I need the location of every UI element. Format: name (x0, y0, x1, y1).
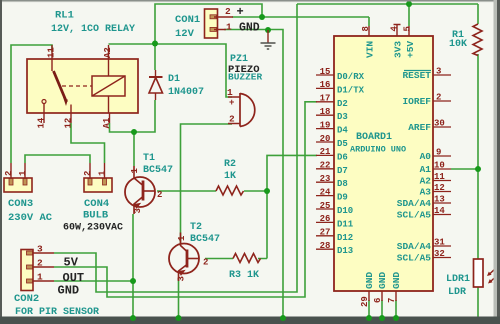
svg-text:A2: A2 (420, 176, 432, 187)
svg-text:16: 16 (320, 80, 331, 90)
svg-text:2: 2 (37, 258, 43, 269)
svg-text:5V: 5V (64, 256, 79, 270)
svg-text:D0/RX: D0/RX (337, 72, 365, 82)
svg-text:+5V: +5V (405, 41, 416, 58)
arduino top pin +5V 5 (403, 26, 417, 58)
wire bottom GND rail (133, 317, 478, 319)
svg-text:R3 1K: R3 1K (229, 270, 259, 281)
wire CON3.2 to relay pin 11 (11, 45, 52, 163)
svg-text:CON3: CON3 (8, 198, 33, 210)
svg-text:1: 1 (177, 235, 187, 241)
svg-text:28: 28 (320, 241, 331, 251)
arduino BOARD1 box (334, 36, 433, 291)
arduino top pin 3V3 4 (390, 25, 404, 59)
svg-text:10K: 10K (449, 39, 467, 50)
svg-text:25: 25 (320, 201, 331, 211)
connector CON4 (84, 163, 112, 192)
svg-text:BC547: BC547 (190, 234, 220, 245)
wire T2 emitter down to GND rail (178, 278, 180, 318)
diode D1 1N4007 (149, 70, 163, 100)
svg-text:19: 19 (320, 120, 331, 130)
svg-text:BULB: BULB (83, 210, 109, 222)
svg-text:CON1: CON1 (175, 14, 200, 26)
svg-text:+: + (237, 5, 244, 19)
arduino right pin numbers (434, 67, 445, 260)
svg-text:BC547: BC547 (143, 165, 173, 176)
svg-text:GND: GND (391, 272, 402, 289)
svg-text:27: 27 (320, 228, 331, 238)
relay pin 11 stub (51, 45, 53, 71)
svg-text:A1: A1 (102, 117, 112, 128)
svg-text:2: 2 (229, 114, 235, 125)
svg-text:LDR1: LDR1 (446, 274, 470, 285)
wire R1 to LDR and A1 tap (451, 54, 478, 318)
junction node +12V at CON1 plus (259, 14, 265, 20)
svg-text:AREF: AREF (408, 122, 431, 133)
wire arduino GND pins to rail (369, 300, 396, 318)
svg-text:1: 1 (98, 170, 108, 176)
svg-text:D7: D7 (337, 166, 348, 176)
svg-text:D4: D4 (337, 126, 348, 136)
svg-text:T2: T2 (190, 222, 202, 233)
svg-text:8: 8 (361, 26, 371, 31)
wire VIN drop (368, 17, 370, 26)
svg-text:+: + (229, 98, 234, 108)
wire T1 base to R2 (157, 190, 216, 192)
svg-text:18: 18 (320, 107, 331, 117)
svg-text:5: 5 (403, 26, 413, 31)
svg-text:21: 21 (320, 147, 331, 157)
wire +12V rail from CON1 plus up and left (155, 4, 369, 44)
svg-text:D9: D9 (337, 193, 348, 203)
svg-text:230V AC: 230V AC (8, 212, 53, 224)
svg-text:23: 23 (320, 174, 331, 184)
svg-text:2: 2 (436, 93, 441, 103)
wire T1 emitter down to GND junction (132, 214, 134, 318)
svg-text:11: 11 (434, 172, 445, 182)
svg-text:2: 2 (203, 258, 208, 268)
svg-text:GND: GND (364, 272, 375, 289)
svg-text:D5: D5 (337, 139, 348, 149)
junction node rail CON1 GND (280, 315, 286, 321)
svg-text:ARDUINO UNO: ARDUINO UNO (350, 145, 406, 155)
wire GND from CON1 to right and down (224, 30, 283, 317)
svg-text:SDA/A4: SDA/A4 (397, 198, 432, 209)
svg-text:3V3: 3V3 (393, 41, 404, 58)
svg-text:13: 13 (434, 195, 445, 205)
svg-text:1: 1 (130, 168, 140, 174)
buzzer PZ1 (228, 93, 255, 127)
svg-text:D1/TX: D1/TX (337, 85, 365, 95)
svg-text:2: 2 (4, 171, 14, 176)
resistor R3 (233, 254, 261, 263)
svg-text:24: 24 (320, 187, 331, 197)
svg-text:GND: GND (239, 22, 260, 35)
junction node CON2 GND / T1 emitter (130, 278, 136, 284)
svg-text:2: 2 (225, 6, 231, 17)
svg-text:1: 1 (18, 170, 28, 176)
svg-text:T1: T1 (143, 153, 155, 164)
svg-text:12V: 12V (175, 28, 195, 40)
svg-text:3: 3 (37, 244, 43, 255)
svg-text:22: 22 (320, 161, 331, 171)
svg-text:3: 3 (436, 67, 441, 77)
junction node rail T2 (176, 315, 182, 321)
svg-text:D11: D11 (337, 219, 354, 229)
wire CON3.1 to CON4.2 (25, 155, 90, 163)
arduino right pin names (397, 70, 432, 264)
svg-text:A3: A3 (420, 187, 432, 198)
svg-text:12: 12 (434, 183, 445, 193)
svg-text:7: 7 (387, 298, 397, 303)
photo frame border (0, 0, 500, 3)
svg-text:A2: A2 (103, 47, 113, 58)
transistor T1 (125, 166, 155, 214)
arduino bottom pins GND 29 6 7 (360, 272, 402, 307)
wire coil A2 / D1 / buzzer plus net (109, 44, 233, 97)
junction node +5V at pin 5 (406, 1, 412, 7)
junction node A1 to LDR divider (475, 166, 481, 172)
LDR1 (474, 259, 499, 287)
relay pin 14 stub (43, 104, 45, 124)
junction node rail GND7 (393, 315, 399, 321)
svg-text:LDR: LDR (448, 287, 466, 298)
svg-text:D2: D2 (337, 99, 348, 109)
svg-text:1: 1 (227, 87, 233, 98)
svg-text:D10: D10 (337, 206, 353, 216)
svg-text:60W,230VAC: 60W,230VAC (63, 223, 123, 234)
svg-text:D13: D13 (337, 246, 353, 256)
svg-text:CON4: CON4 (84, 198, 109, 210)
svg-text:D8: D8 (337, 179, 348, 189)
svg-text:1: 1 (37, 272, 43, 283)
svg-text:26: 26 (320, 214, 331, 224)
svg-text:30: 30 (434, 119, 445, 129)
svg-text:VIN: VIN (365, 41, 376, 58)
relay dashed actuator line (62, 85, 92, 87)
junction node rail T1 (130, 315, 136, 321)
svg-text:GND: GND (377, 272, 388, 289)
wire T2 base to R3 (205, 258, 233, 260)
relay NC contact circle (42, 100, 46, 104)
svg-text:15: 15 (320, 67, 331, 77)
svg-text:D3: D3 (337, 112, 348, 122)
svg-text:4: 4 (390, 26, 400, 32)
svg-text:12: 12 (64, 118, 74, 129)
svg-text:BOARD1: BOARD1 (356, 132, 392, 143)
svg-text:2: 2 (83, 171, 93, 176)
connector CON3 (4, 163, 32, 192)
svg-text:3: 3 (133, 208, 143, 213)
svg-text:RL1: RL1 (55, 10, 74, 22)
svg-text:GND: GND (58, 284, 80, 298)
transistor T2 (169, 233, 199, 282)
arduino left pin numbers 15-28 (320, 67, 331, 251)
junction node rail GND29 (366, 315, 372, 321)
wire relay pin 12 to CON4.1 (71, 123, 105, 163)
wire T2 collector to buzzer pin 2 (181, 124, 233, 244)
wire relay A1 to T1 collector and D1 anode (110, 100, 156, 166)
svg-text:SCL/A5: SCL/A5 (397, 210, 432, 221)
relay switch blade (54, 71, 67, 102)
svg-text:20: 20 (320, 134, 331, 144)
connector CON1 (205, 9, 234, 38)
junction node rail GND6 (379, 315, 385, 321)
svg-text:1K: 1K (224, 171, 236, 182)
junction node coil A2/D1/buzzer (152, 41, 158, 47)
svg-text:3: 3 (177, 276, 187, 281)
wire PIR OUT to Arduino D2 (54, 102, 317, 297)
svg-text:CON2: CON2 (14, 293, 39, 305)
wire CON2 GND to T1 emitter line (54, 280, 133, 282)
relay pin A1 stub (109, 113, 111, 123)
svg-text:32: 32 (434, 249, 445, 259)
svg-text:9: 9 (436, 148, 441, 158)
svg-text:RESET: RESET (402, 70, 431, 81)
svg-text:1: 1 (226, 22, 232, 33)
relay pin A2 stub (108, 45, 110, 59)
svg-text:SCL/A5: SCL/A5 (397, 253, 432, 264)
svg-text:D6: D6 (337, 152, 348, 162)
svg-text:R2: R2 (224, 159, 236, 170)
svg-text:A0: A0 (420, 151, 432, 162)
arduino left pin names D0-D13 (337, 72, 365, 256)
svg-text:29: 29 (360, 296, 370, 307)
svg-text:IOREF: IOREF (402, 96, 431, 107)
arduino top pin VIN 8 (361, 26, 376, 58)
svg-text:10: 10 (434, 161, 445, 171)
svg-text:SDA/A4: SDA/A4 (397, 241, 432, 252)
svg-text:D1: D1 (168, 74, 180, 85)
svg-text:14: 14 (37, 117, 47, 128)
svg-text:BUZZER: BUZZER (228, 72, 263, 83)
svg-text:6: 6 (373, 298, 383, 303)
junction node R2/R3/D6 (264, 188, 270, 194)
RESET overline (404, 70, 431, 72)
wire D6 to base junction (258, 155, 317, 258)
svg-text:31: 31 (434, 238, 445, 248)
resistor R2 (216, 186, 244, 195)
svg-text:FOR PIR SENSOR: FOR PIR SENSOR (15, 307, 99, 318)
relay coil (92, 76, 125, 96)
svg-text:1N4007: 1N4007 (168, 87, 204, 98)
svg-text:2: 2 (157, 190, 162, 200)
junction node relay A1 / T1 collector (131, 129, 137, 135)
svg-text:12V, 1CO RELAY: 12V, 1CO RELAY (51, 24, 135, 35)
ground symbol near CON1 (261, 30, 276, 49)
wire +5V top rail (297, 4, 478, 26)
relay RL1 (27, 45, 138, 123)
svg-text:A1: A1 (420, 164, 432, 175)
arduino right pins underlines (433, 75, 451, 258)
svg-text:D12: D12 (337, 233, 353, 243)
wire +5V vertical drop to PIR 5V (54, 4, 297, 292)
arduino left pins numbers and underlines (316, 75, 334, 249)
connector CON2 (21, 250, 54, 291)
resistor R1 (473, 24, 482, 56)
svg-text:11: 11 (47, 47, 57, 58)
junction node GND at CON1 (265, 27, 271, 33)
wire R2 right to junction (244, 190, 267, 192)
relay pin 12 stub (70, 105, 72, 124)
svg-text:14: 14 (434, 206, 445, 216)
svg-text:17: 17 (320, 94, 331, 104)
